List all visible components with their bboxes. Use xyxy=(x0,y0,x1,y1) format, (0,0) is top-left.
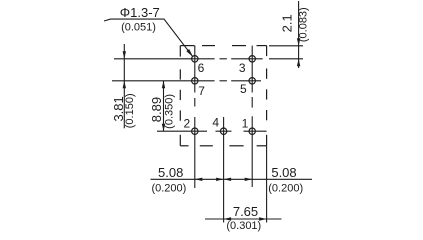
arrowhead 5.08 left at pin4 col xyxy=(224,178,232,181)
arrowhead 3.81 up at row 7-5 xyxy=(123,81,126,89)
center line row 2-4-1 xyxy=(157,130,267,132)
svg-text:1: 1 xyxy=(242,117,249,131)
svg-text:(0.200): (0.200) xyxy=(268,183,303,195)
arrowhead 2.1 down xyxy=(297,38,300,46)
svg-text:Φ1.3-7: Φ1.3-7 xyxy=(120,5,160,20)
pin hole 7 xyxy=(192,78,198,84)
arrowhead 5.08 left at pin2 col xyxy=(195,178,203,181)
dimension line bottom 5.08 pair xyxy=(151,178,313,180)
svg-text:(0.051): (0.051) xyxy=(121,22,156,34)
arrowhead 3.81 down at row 6-3 xyxy=(123,51,126,59)
arrowhead 2.1 up xyxy=(297,59,300,67)
svg-text:7.65: 7.65 xyxy=(233,204,258,219)
dimension line 7.65 xyxy=(205,218,282,220)
pin hole 2 xyxy=(192,128,198,134)
svg-text:(0.083): (0.083) xyxy=(298,7,310,42)
vertical center line middle column (pin 4) xyxy=(223,117,225,223)
svg-text:2.1: 2.1 xyxy=(280,14,295,32)
arrowhead 5.08 right at pin1 col xyxy=(245,178,253,181)
arrowhead 8.89 up xyxy=(162,81,165,89)
vertical center line right column (pins 3,5,1) xyxy=(251,46,253,187)
svg-text:5.08: 5.08 xyxy=(271,165,296,180)
svg-text:(0.200): (0.200) xyxy=(151,183,186,195)
pin hole 3 xyxy=(249,56,255,62)
relay outline dashed rectangle: bottom edge xyxy=(180,145,266,147)
dimension line 2.1 vertical xyxy=(298,1,300,68)
pin hole 6 xyxy=(192,56,198,62)
svg-text:(0.150): (0.150) xyxy=(124,93,136,128)
arrowhead 7.65 left xyxy=(224,217,232,220)
arrowhead 5.08 right at pin4 col xyxy=(216,178,224,181)
vertical center line left column (pins 6,7,2) xyxy=(194,46,196,188)
leader line for hole diameter callout xyxy=(104,19,193,56)
svg-text:(0.301): (0.301) xyxy=(226,220,261,232)
center line row 6-3 xyxy=(114,58,303,60)
dimension line 3.81 vertical xyxy=(123,44,125,128)
relay outline dashed rectangle: top edge xyxy=(180,45,266,47)
center line row 7-5 xyxy=(112,80,261,82)
arrowhead leader at pin 6 xyxy=(186,49,193,57)
svg-text:5: 5 xyxy=(240,82,247,96)
dimension line 8.89 vertical xyxy=(163,81,165,131)
pin hole 1 xyxy=(249,128,255,134)
svg-text:5.08: 5.08 xyxy=(158,165,183,180)
svg-text:7: 7 xyxy=(198,84,205,98)
pin hole 4 xyxy=(220,128,226,134)
svg-text:8.89: 8.89 xyxy=(149,97,164,122)
svg-text:2: 2 xyxy=(183,116,190,130)
arrowhead 7.65 right xyxy=(259,217,267,220)
relay outline dashed rectangle: left edge xyxy=(179,46,181,146)
extension tick top edge for 2.1 xyxy=(269,45,303,47)
relay outline dashed rectangle: right edge xyxy=(266,46,268,146)
svg-text:(0.350): (0.350) xyxy=(164,94,176,129)
svg-text:4: 4 xyxy=(212,116,219,130)
extension line right edge of outline (for 7.65) xyxy=(266,146,268,223)
pin hole 5 xyxy=(249,78,255,84)
svg-text:6: 6 xyxy=(198,61,205,75)
arrowhead 8.89 down xyxy=(162,124,165,132)
svg-text:3: 3 xyxy=(239,61,246,75)
